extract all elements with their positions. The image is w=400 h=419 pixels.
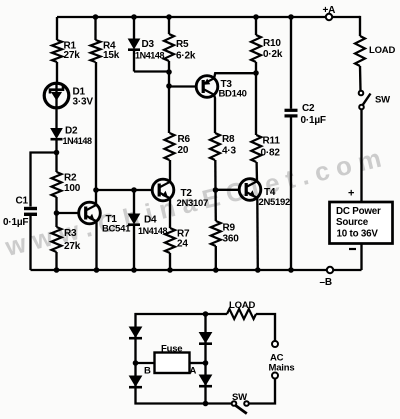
node top-R5 xyxy=(166,14,172,20)
resistor LOAD xyxy=(355,36,365,66)
svg-text:BC541: BC541 xyxy=(102,224,131,235)
svg-text:2N5192: 2N5192 xyxy=(259,197,290,208)
svg-text:R11: R11 xyxy=(263,136,281,147)
wire bottom rail xyxy=(31,269,327,271)
wire D3 to R5 column xyxy=(134,70,169,72)
node top-D3 xyxy=(131,14,137,20)
wire fuse left xyxy=(136,362,155,364)
svg-text:6·2k: 6·2k xyxy=(176,51,196,62)
node D4 top xyxy=(131,187,137,193)
DC power source box xyxy=(330,202,393,244)
svg-text:C1: C1 xyxy=(16,196,29,207)
wire SW to DC box xyxy=(360,109,362,202)
node D2-R2 xyxy=(54,150,60,156)
watermark xyxy=(1,141,390,262)
wire AC to SW xyxy=(249,379,275,404)
node T4 base junction xyxy=(213,187,219,193)
svg-text:1N4148: 1N4148 xyxy=(135,51,165,61)
wire R11 to T4 collector xyxy=(255,162,258,182)
node bridge top-right xyxy=(203,311,209,317)
svg-text:20: 20 xyxy=(178,145,189,156)
node R9-rail junction xyxy=(213,267,219,273)
switch SW xyxy=(359,91,364,96)
svg-text:D4: D4 xyxy=(144,215,157,226)
resistor R7 xyxy=(165,228,175,253)
svg-text:R9: R9 xyxy=(223,223,236,234)
node bridge left-mid xyxy=(133,360,139,366)
svg-text:R5: R5 xyxy=(176,39,189,50)
wire bridge top xyxy=(135,313,228,315)
wire T3 emitter to R10 column xyxy=(214,73,256,79)
svg-text:+A: +A xyxy=(323,5,336,16)
node top-R10 xyxy=(253,14,259,20)
svg-text:Source: Source xyxy=(336,217,369,228)
bridge diode upper-left xyxy=(130,327,142,337)
svg-text:0·2k: 0·2k xyxy=(263,49,283,60)
node bridge bottom-right xyxy=(203,401,209,407)
wire base line to T2 xyxy=(96,189,153,191)
svg-text:24: 24 xyxy=(177,239,188,250)
wire R4 to T1 collector xyxy=(95,62,97,205)
svg-text:R8: R8 xyxy=(222,134,235,145)
node -B xyxy=(327,267,333,273)
svg-text:27k: 27k xyxy=(64,241,81,252)
wire T4 emitter to rail xyxy=(256,198,259,270)
wire LOAD to AC xyxy=(256,314,275,341)
resistor R8 xyxy=(210,133,220,160)
svg-text:360: 360 xyxy=(223,234,240,245)
wire fuse right xyxy=(190,362,206,364)
wire R8 to junction xyxy=(214,160,217,190)
resistor R9 xyxy=(214,190,217,221)
svg-text:–B: –B xyxy=(320,277,332,288)
svg-text:+: + xyxy=(348,188,354,200)
node R3-rail junction xyxy=(54,267,60,273)
svg-text:Fuse: Fuse xyxy=(161,344,182,355)
svg-text:LOAD: LOAD xyxy=(369,45,395,56)
wire T4 base xyxy=(216,189,240,191)
node T4 emitter-rail junction xyxy=(255,267,261,273)
svg-text:R2: R2 xyxy=(64,173,77,184)
diode D3 xyxy=(133,17,135,39)
node bridge right-mid xyxy=(203,360,209,366)
svg-text:R10: R10 xyxy=(263,38,281,49)
bridge diode lower-right xyxy=(200,375,212,385)
node R7-rail junction xyxy=(167,267,173,273)
wire T3 base xyxy=(169,85,196,87)
svg-text:15k: 15k xyxy=(103,50,120,61)
node R10-T3emitter xyxy=(255,62,257,135)
svg-text:R3: R3 xyxy=(64,228,77,239)
bridge right rail xyxy=(204,314,206,404)
svg-text:D2: D2 xyxy=(65,126,78,137)
svg-text:1N4148: 1N4148 xyxy=(63,136,93,146)
zener diode D1 xyxy=(56,62,58,83)
svg-text:SW: SW xyxy=(375,95,390,106)
bridge diode upper-right xyxy=(200,333,212,343)
bridge diode lower-left xyxy=(130,376,142,386)
svg-text:B: B xyxy=(144,366,151,377)
node +A xyxy=(326,14,332,20)
svg-text:Mains: Mains xyxy=(269,363,295,374)
transistor T4 xyxy=(239,179,261,201)
bridge left rail xyxy=(134,313,136,405)
svg-text:R6: R6 xyxy=(178,134,191,145)
node R5-D3 xyxy=(168,61,170,133)
resistor R2 xyxy=(52,172,62,197)
wire T3 collector to R8 xyxy=(214,95,215,133)
svg-text:BD140: BD140 xyxy=(219,89,247,100)
AC mains terminal top xyxy=(272,341,278,347)
wire T2 emitter to R7 xyxy=(169,198,171,228)
svg-text:DC Power: DC Power xyxy=(336,206,381,217)
svg-text:2N3107: 2N3107 xyxy=(177,198,208,209)
svg-text:4·3: 4·3 xyxy=(222,146,236,157)
resistor R5 xyxy=(168,17,170,34)
transistor T3 (PNP) xyxy=(196,76,218,98)
wire SW to bridge bottom xyxy=(135,402,232,404)
capacitor C2 xyxy=(290,17,292,109)
capacitor C1 xyxy=(24,207,37,210)
wire DC box to bottom rail xyxy=(360,244,362,271)
node T1 emitter-rail junction xyxy=(94,267,100,273)
resistor R4 xyxy=(94,17,96,40)
svg-text:A: A xyxy=(190,366,197,377)
diode D2 xyxy=(51,129,62,139)
fuse box xyxy=(155,353,190,374)
svg-text:D3: D3 xyxy=(142,39,155,50)
wire T1 base xyxy=(57,212,79,214)
svg-text:0·1µF: 0·1µF xyxy=(3,217,28,228)
svg-text:100: 100 xyxy=(64,183,81,194)
svg-text:SW: SW xyxy=(232,392,247,403)
wire top right corner to LOAD xyxy=(359,16,361,36)
node D4-rail junction xyxy=(131,267,137,273)
node top-C2 xyxy=(288,14,294,20)
node C2-rail junction xyxy=(288,267,294,273)
svg-text:0·1µF: 0·1µF xyxy=(301,115,326,126)
AC mains terminal bottom xyxy=(272,373,278,379)
resistor R11 xyxy=(251,135,261,162)
wire T1 emitter to rail xyxy=(95,221,97,270)
resistor R1 xyxy=(56,17,58,40)
svg-text:27k: 27k xyxy=(64,50,81,61)
diode D4 xyxy=(133,190,135,214)
svg-text:0·82: 0·82 xyxy=(261,148,281,159)
svg-text:C2: C2 xyxy=(302,103,315,114)
resistor R3 xyxy=(52,227,62,252)
node T3 base junction xyxy=(166,83,172,89)
resistor R10 xyxy=(255,17,257,35)
svg-text:3·3V: 3·3V xyxy=(73,97,94,108)
svg-text:10 to 36V: 10 to 36V xyxy=(337,229,379,240)
wire to C1 branch xyxy=(30,151,57,153)
wire R6 to T2 collector xyxy=(169,160,171,182)
resistor R6 xyxy=(165,133,175,160)
node T1 collector branch xyxy=(93,187,99,193)
resistor LOAD (bottom circuit) xyxy=(227,309,256,319)
transistor T2 xyxy=(152,179,174,201)
svg-text:LOAD: LOAD xyxy=(229,300,255,311)
node R2-R3 T1 base xyxy=(54,210,60,216)
switch SW (bottom) xyxy=(244,401,249,406)
transistor T1 xyxy=(79,202,101,224)
wire top rail xyxy=(57,16,326,18)
node top-R4 xyxy=(93,14,99,20)
